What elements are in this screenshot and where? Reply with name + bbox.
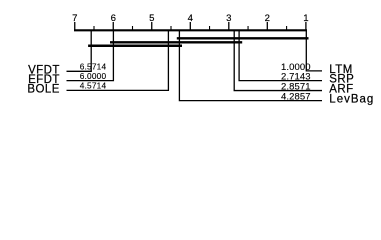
minor tick 1.5 (286, 26, 288, 30)
clique bar VFDT-EFDT-BOLE-LevBag (88, 45, 182, 47)
svg-text:5: 5 (149, 13, 154, 24)
major tick 3 (228, 22, 230, 30)
svg-text:2: 2 (265, 13, 270, 24)
svg-text:4: 4 (188, 13, 194, 24)
svg-text:BOLE: BOLE (27, 84, 59, 96)
svg-text:4.5714: 4.5714 (80, 81, 107, 91)
EFDT connector line (67, 30, 114, 80)
svg-text:LevBag: LevBag (329, 93, 374, 105)
clique bar EFDT-BOLE-LevBag-ARF-SRP (110, 41, 242, 43)
SRP connector line (239, 30, 322, 80)
svg-text:3: 3 (226, 13, 231, 24)
svg-text:7: 7 (72, 13, 77, 24)
clique bar LevBag-ARF-SRP-LTM (177, 37, 309, 39)
major tick 1 (305, 22, 307, 30)
LTM connector line (306, 30, 322, 71)
minor tick 2.5 (247, 26, 249, 30)
minor tick 5.5 (132, 26, 134, 30)
minor tick 6.5 (93, 26, 95, 30)
minor tick 4.5 (170, 26, 172, 30)
major tick 6 (112, 22, 114, 30)
svg-text:1: 1 (303, 13, 308, 24)
axis line (rank scale 7..1) (74, 29, 307, 31)
major tick 5 (151, 22, 153, 30)
LevBag connector line (179, 30, 322, 100)
svg-text:6: 6 (111, 13, 116, 24)
svg-text:6.0000: 6.0000 (80, 71, 107, 81)
major tick 2 (266, 22, 268, 30)
ARF connector line (234, 30, 322, 90)
BOLE connector line (67, 30, 169, 90)
svg-text:4.2857: 4.2857 (281, 92, 311, 103)
major tick 4 (189, 22, 191, 30)
minor tick 3.5 (209, 26, 211, 30)
VFDT connector line (67, 30, 92, 71)
major tick 7 (74, 22, 76, 30)
